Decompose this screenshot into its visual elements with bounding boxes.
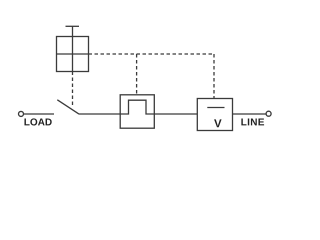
label LOAD xyxy=(24,118,51,125)
wire surge arrester to voltmeter xyxy=(154,113,197,115)
terminal LINE xyxy=(266,111,271,116)
label LINE xyxy=(241,119,264,126)
wire switch to surge arrester xyxy=(79,113,121,115)
terminal LOAD xyxy=(19,111,24,116)
wire LOAD to switch xyxy=(24,113,54,115)
monitoring device M1 (4-quadrant box) xyxy=(57,26,89,71)
dashed control line to switch xyxy=(72,72,74,107)
dashed drop to voltmeter xyxy=(213,54,215,99)
switch S1 (open blade) xyxy=(57,100,79,114)
antenna T-bar xyxy=(66,25,80,27)
voltmeter U1 box xyxy=(197,99,232,131)
dashed drop to surge arrester xyxy=(136,54,138,95)
dashed control bus (horizontal) xyxy=(89,53,215,55)
surge arrester box (pulse symbol) xyxy=(120,95,154,128)
wire voltmeter to LINE xyxy=(233,113,266,115)
value label V (voltmeter) xyxy=(214,119,222,127)
